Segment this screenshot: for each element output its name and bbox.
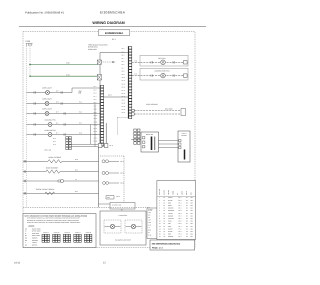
svg-text:VIOLET: VIOLET xyxy=(168,213,173,215)
svg-text:CONN J4: CONN J4 xyxy=(75,232,81,234)
resistor bake element xyxy=(23,166,124,174)
node broil fan enclosure xyxy=(132,55,188,66)
svg-text:A1-10: A1-10 xyxy=(122,77,126,79)
svg-text:BR: BR xyxy=(25,238,27,240)
svg-text:MUST BE USED. REPLACE ALL PANE: MUST BE USED. REPLACE ALL PANELS BEFORE … xyxy=(27,222,81,224)
svg-text:- GRAY WIRE: - GRAY WIRE xyxy=(31,235,40,237)
svg-text:A1-18: A1-18 xyxy=(122,103,126,105)
node P1 pin labels xyxy=(94,86,98,142)
connector header J3 xyxy=(63,232,71,242)
connector column A1 right xyxy=(122,46,132,119)
svg-text:EI30BM5CHBA: EI30BM5CHBA xyxy=(100,11,126,15)
svg-text:GN: GN xyxy=(191,210,193,212)
svg-text:P1-5: P1-5 xyxy=(94,99,97,101)
svg-text:GN: GN xyxy=(191,202,193,204)
node notes box xyxy=(23,214,96,248)
svg-text:A1-16: A1-16 xyxy=(122,96,126,98)
svg-text:18: 18 xyxy=(164,208,166,210)
svg-text:10 BL: 10 BL xyxy=(148,235,152,237)
svg-text:B8: B8 xyxy=(186,226,188,228)
svg-text:V: V xyxy=(25,242,26,244)
node page box xyxy=(150,240,195,250)
svg-text:P3-2: P3-2 xyxy=(179,221,182,223)
svg-text:C1: C1 xyxy=(186,228,188,230)
svg-text:8 GN: 8 GN xyxy=(148,230,151,232)
svg-text:A1-19: A1-19 xyxy=(122,106,126,108)
svg-text:GN: GN xyxy=(191,221,193,223)
svg-text:PAGE: 1 / 2: PAGE: 1 / 2 xyxy=(152,246,164,249)
svg-text:MOTOR: MOTOR xyxy=(181,135,186,137)
svg-text:PINK: PINK xyxy=(168,226,171,228)
svg-text:A1-3: A1-3 xyxy=(122,55,125,57)
motor M1 broil fan xyxy=(161,60,166,65)
wire element bus xyxy=(98,147,100,207)
wire header rule xyxy=(19,26,206,28)
connector block A2 two-column xyxy=(134,129,140,144)
wire section divider xyxy=(23,206,150,208)
svg-text:5 BR: 5 BR xyxy=(148,222,151,224)
node strip list xyxy=(147,208,158,239)
connector inline pairs xyxy=(24,91,35,194)
node latch motor block xyxy=(178,131,190,162)
svg-text:BRL FAN: BRL FAN xyxy=(159,57,167,60)
svg-text:CONN J1: CONN J1 xyxy=(43,232,49,234)
svg-text:P3-3: P3-3 xyxy=(179,223,182,225)
svg-text:A1-13: A1-13 xyxy=(122,87,126,89)
svg-text:BLACK: BLACK xyxy=(168,197,173,199)
svg-text:P1-4: P1-4 xyxy=(94,96,97,98)
svg-text:18: 18 xyxy=(164,221,166,223)
wire convection fan wire xyxy=(132,75,184,77)
svg-text:10: 10 xyxy=(159,221,161,223)
svg-text:P1-3: P1-3 xyxy=(179,202,182,204)
motor M3 cooling fan row xyxy=(27,119,101,127)
svg-text:GRAY: GRAY xyxy=(168,205,172,207)
svg-text:Publication No. 5995599548 #1: Publication No. 5995599548 #1 xyxy=(25,11,64,15)
wire dashed drop to lamp box xyxy=(123,156,125,207)
connector P7 grid xyxy=(53,137,71,150)
svg-text:P2-3: P2-3 xyxy=(179,213,182,215)
wire lock feed 2 xyxy=(72,146,105,148)
svg-text:A1-20: A1-20 xyxy=(122,109,126,111)
svg-text:B2: B2 xyxy=(186,210,188,212)
wire lock feed 1 xyxy=(72,144,99,146)
svg-text:BLACK: BLACK xyxy=(168,228,173,230)
svg-text:WHITE: WHITE xyxy=(168,200,173,202)
svg-text:R-11: R-11 xyxy=(75,170,78,172)
svg-text:OPERATING. CONNECT ALL GROUND: OPERATING. CONNECT ALL GROUND LEADS PER … xyxy=(27,220,80,222)
wire terminal block riser xyxy=(100,53,128,86)
svg-text:18: 18 xyxy=(164,231,166,233)
svg-text:P2-2: P2-2 xyxy=(179,210,182,212)
connector header J1 xyxy=(42,232,50,242)
node A1 pin labels xyxy=(122,48,126,114)
svg-text:A1-4: A1-4 xyxy=(122,58,125,60)
svg-text:P2-1: P2-1 xyxy=(179,208,182,210)
motor M2 convection fan xyxy=(161,73,166,78)
node diagram frame xyxy=(23,32,195,248)
svg-text:10/13: 10/13 xyxy=(14,262,21,265)
svg-text:A1-21: A1-21 xyxy=(122,112,126,114)
svg-text:EI30BM5CHBA: EI30BM5CHBA xyxy=(105,32,123,35)
svg-text:4 GY: 4 GY xyxy=(148,220,151,222)
svg-text:A2: A2 xyxy=(186,200,188,202)
svg-text:13: 13 xyxy=(159,228,161,230)
svg-text:GREEN: GREEN xyxy=(168,215,173,217)
svg-text:P1-17: P1-17 xyxy=(94,137,98,139)
wire broil fan wire xyxy=(132,61,184,63)
svg-text:A1-12: A1-12 xyxy=(122,83,126,85)
svg-text:R-2: R-2 xyxy=(56,122,58,124)
wire left dotted bus 2 xyxy=(29,46,31,76)
svg-text:E11: E11 xyxy=(66,62,69,65)
svg-text:18: 18 xyxy=(164,223,166,225)
svg-text:9 Y: 9 Y xyxy=(148,232,150,234)
svg-text:BK: BK xyxy=(25,228,27,230)
node terminal X1 xyxy=(97,60,101,64)
svg-text:12: 12 xyxy=(159,226,161,228)
node meat probe row xyxy=(23,179,124,184)
wire sensor run 1 xyxy=(135,110,182,112)
svg-text:LATCH: LATCH xyxy=(182,133,186,135)
svg-text:18: 18 xyxy=(164,200,166,202)
svg-text:6 OR: 6 OR xyxy=(148,225,151,227)
svg-text:A1: A1 xyxy=(186,197,188,199)
svg-text:- RED WIRE: - RED WIRE xyxy=(31,233,39,235)
connector lock plugs xyxy=(98,144,102,148)
svg-text:P1-2: P1-2 xyxy=(179,200,182,202)
svg-text:P4-3: P4-3 xyxy=(179,234,182,236)
node terminal X2 xyxy=(97,75,101,81)
svg-text:P1-18: P1-18 xyxy=(94,141,98,143)
svg-text:B7: B7 xyxy=(186,223,188,225)
svg-text:A1-8: A1-8 xyxy=(122,71,125,73)
svg-text:REF: REF xyxy=(191,192,193,195)
lamp L3 oven light row xyxy=(27,108,101,116)
svg-text:14: 14 xyxy=(159,231,161,233)
connector header J4 xyxy=(74,232,82,242)
svg-text:- VIOLET: - VIOLET xyxy=(31,242,37,244)
svg-text:A1-5: A1-5 xyxy=(108,94,112,97)
svg-text:P1-11: P1-11 xyxy=(94,118,98,120)
svg-text:CONN J3: CONN J3 xyxy=(64,232,70,234)
wire sensor run 2 xyxy=(135,113,182,115)
svg-text:18: 18 xyxy=(164,226,166,228)
svg-text:AT LATCH SW: AT LATCH SW xyxy=(112,204,122,206)
connector broil fan plug xyxy=(184,61,188,64)
svg-text:18: 18 xyxy=(164,234,166,236)
node convection fan enclosure xyxy=(132,68,188,80)
svg-text:P1-13: P1-13 xyxy=(94,125,98,127)
svg-text:B4: B4 xyxy=(186,215,188,217)
svg-text:B3: B3 xyxy=(186,213,188,215)
svg-text:WITH DOOR CLOSED, ALL SWITCHES: WITH DOOR CLOSED, ALL SWITCHES IN NORMAL… xyxy=(27,218,80,220)
node diagram title box xyxy=(98,30,129,36)
svg-text:18: 18 xyxy=(164,213,166,215)
svg-text:GN: GN xyxy=(25,244,27,246)
svg-text:E12: E12 xyxy=(66,73,69,76)
svg-text:GN: GN xyxy=(191,234,193,236)
svg-text:- WHITE WIRE: - WHITE WIRE xyxy=(31,231,41,233)
svg-text:18: 18 xyxy=(164,210,166,212)
svg-text:P2-4: P2-4 xyxy=(179,215,182,217)
svg-text:P1-1: P1-1 xyxy=(179,197,182,199)
wire relay to latch 2 xyxy=(159,143,179,145)
svg-text:BK-4: BK-4 xyxy=(75,191,78,193)
svg-text:Y-2: Y-2 xyxy=(75,179,77,181)
svg-text:A1-15: A1-15 xyxy=(122,93,126,95)
svg-text:SW1: SW1 xyxy=(107,197,110,199)
svg-text:GN: GN xyxy=(191,226,193,228)
svg-text:WIRING DIAGRAM: WIRING DIAGRAM xyxy=(92,21,124,25)
svg-text:C3: C3 xyxy=(186,234,188,236)
svg-text:18: 18 xyxy=(164,202,166,204)
lamp L1 oven light row xyxy=(27,86,101,94)
svg-text:A1-2: A1-2 xyxy=(122,51,125,53)
svg-text:W-5: W-5 xyxy=(56,90,59,92)
node row mid labels xyxy=(56,90,82,134)
svg-text:GN: GN xyxy=(191,208,193,210)
svg-text:11: 11 xyxy=(159,223,161,225)
svg-text:18: 18 xyxy=(164,236,166,238)
svg-text:- ORANGE: - ORANGE xyxy=(31,240,38,242)
wire terminal X1 stub xyxy=(102,61,117,63)
svg-text:WHITE: WHITE xyxy=(168,231,173,233)
wire relay to latch 3 xyxy=(159,147,179,149)
node relay board xyxy=(141,132,159,152)
svg-text:18: 18 xyxy=(164,197,166,199)
wire mid verticals xyxy=(90,125,92,145)
wire green line 2 xyxy=(29,73,97,77)
connector convection fan plug xyxy=(184,74,188,77)
svg-text:P1-4: P1-4 xyxy=(179,205,182,207)
svg-text:COLOR: COLOR xyxy=(168,190,170,195)
wire dashed cross link xyxy=(100,155,124,157)
svg-text:A1-11: A1-11 xyxy=(122,80,126,82)
svg-text:P4-2: P4-2 xyxy=(179,231,182,233)
svg-text:B5: B5 xyxy=(186,218,188,220)
svg-text:CONN J5: CONN J5 xyxy=(86,232,92,234)
svg-text:16: 16 xyxy=(159,236,161,238)
svg-text:OR: OR xyxy=(25,240,27,242)
svg-text:GREEN: GREEN xyxy=(168,236,173,238)
svg-text:BLUE: BLUE xyxy=(168,221,172,223)
svg-text:CONN: CONN xyxy=(182,191,184,195)
svg-text:A1-9: A1-9 xyxy=(122,74,125,76)
svg-text:B1: B1 xyxy=(186,208,188,210)
svg-text:R: R xyxy=(25,233,26,235)
node element row mid labels xyxy=(75,159,78,193)
wire relay to latch 1 xyxy=(159,140,179,142)
lamp L4 xyxy=(104,220,121,233)
svg-text:P1-10: P1-10 xyxy=(94,115,98,117)
svg-text:GN: GN xyxy=(191,215,193,217)
svg-text:GN: GN xyxy=(191,228,193,230)
svg-text:P4-4: P4-4 xyxy=(179,236,182,238)
svg-text:A1-1: A1-1 xyxy=(122,48,125,50)
svg-text:18: 18 xyxy=(164,228,166,230)
svg-text:W-7: W-7 xyxy=(56,111,59,113)
svg-text:C4: C4 xyxy=(186,236,188,238)
svg-text:GN: GN xyxy=(191,200,193,202)
svg-text:- BLACK WIRE: - BLACK WIRE xyxy=(31,228,41,230)
svg-text:RED: RED xyxy=(168,202,171,204)
svg-text:WIRE NO: WIRE NO xyxy=(159,188,161,195)
svg-text:7 V: 7 V xyxy=(148,227,150,229)
svg-text:GN: GN xyxy=(191,213,193,215)
svg-text:GY: GY xyxy=(25,235,27,237)
svg-text:P3-4: P3-4 xyxy=(179,226,182,228)
wire into relay board xyxy=(131,139,141,141)
svg-text:A1-14: A1-14 xyxy=(122,90,126,92)
svg-text:P1-3: P1-3 xyxy=(94,93,97,95)
svg-text:CONN J2: CONN J2 xyxy=(54,232,60,234)
svg-text:LATCH SW: LATCH SW xyxy=(44,149,52,151)
node latch switch note box xyxy=(110,203,135,210)
svg-text:P1-3: P1-3 xyxy=(79,101,82,103)
svg-text:BROWN: BROWN xyxy=(168,208,173,210)
svg-text:A3: A3 xyxy=(186,202,188,204)
node lamp assembly box xyxy=(100,208,146,245)
wire A1-5 link xyxy=(104,96,129,98)
motor M4 conv fan motor row xyxy=(27,129,101,137)
svg-text:ORANGE: ORANGE xyxy=(168,210,174,212)
svg-text:R-10: R-10 xyxy=(75,159,78,161)
svg-text:GN: GN xyxy=(191,218,193,220)
svg-text:P1-5: P1-5 xyxy=(79,111,82,113)
svg-text:RED: RED xyxy=(168,234,171,236)
svg-text:W-6: W-6 xyxy=(56,101,59,103)
lamp L2 oven light row xyxy=(27,97,101,105)
svg-text:YELLOW: YELLOW xyxy=(168,218,174,220)
svg-text:GN: GN xyxy=(191,197,193,199)
wire green line 1 xyxy=(29,62,97,66)
svg-text:P1-12: P1-12 xyxy=(94,121,98,123)
svg-text:P1-15: P1-15 xyxy=(94,131,98,133)
connector sensor pins xyxy=(132,109,135,111)
svg-text:18: 18 xyxy=(164,215,166,217)
svg-text:A1-17: A1-17 xyxy=(122,99,126,101)
node wire code table xyxy=(157,181,196,240)
svg-text:18: 18 xyxy=(164,218,166,220)
node thermal circuit breaker row xyxy=(23,188,135,209)
resistor broil element xyxy=(23,156,124,163)
svg-text:- BROWN: - BROWN xyxy=(31,238,37,240)
svg-text:CONVECTION FAN: CONVECTION FAN xyxy=(154,70,170,73)
wire dashed L drop xyxy=(117,118,128,136)
svg-text:A1-5: A1-5 xyxy=(122,61,125,63)
svg-text:P1-1: P1-1 xyxy=(79,90,82,92)
svg-text:P7-3: P7-3 xyxy=(53,144,56,146)
connector column P1 left xyxy=(94,85,104,147)
svg-text:P3-1: P3-1 xyxy=(179,218,182,220)
svg-text:P1-9: P1-9 xyxy=(79,132,82,134)
svg-text:P1-14: P1-14 xyxy=(94,128,98,130)
svg-text:- GREEN: - GREEN xyxy=(31,244,37,246)
svg-text:C2: C2 xyxy=(186,231,188,233)
svg-text:GN: GN xyxy=(191,236,193,238)
connector sensor plug xyxy=(181,109,186,116)
svg-text:15: 15 xyxy=(159,234,161,236)
svg-text:GN: GN xyxy=(191,231,193,233)
svg-text:R-4: R-4 xyxy=(56,132,58,134)
svg-text:P4-1: P4-1 xyxy=(179,228,182,230)
svg-text:P7-2: P7-2 xyxy=(53,141,56,143)
svg-text:P7-1: P7-1 xyxy=(53,138,56,140)
connector header J2 xyxy=(53,232,61,242)
svg-text:GAUGE: GAUGE xyxy=(164,190,166,195)
svg-text:NOTE: NOTE xyxy=(186,191,188,195)
svg-text:B6: B6 xyxy=(186,221,188,223)
svg-text:P1-7: P1-7 xyxy=(79,122,82,124)
lamp L5 xyxy=(125,220,142,233)
svg-text:TAN: TAN xyxy=(168,223,171,225)
svg-text:GN: GN xyxy=(191,223,193,225)
svg-text:3 R: 3 R xyxy=(148,217,150,219)
svg-text:800-5995599548 (AB2205XXX): 800-5995599548 (AB2205XXX) xyxy=(152,242,181,245)
wire left dotted bus 1 xyxy=(26,46,28,207)
svg-text:P1-2: P1-2 xyxy=(94,89,97,91)
wire lock vertical pair xyxy=(105,123,107,144)
svg-text:1 BK: 1 BK xyxy=(148,212,151,214)
svg-text:18: 18 xyxy=(164,205,166,207)
svg-text:GN: GN xyxy=(191,205,193,207)
connector header J5 xyxy=(84,232,92,242)
svg-text:A4: A4 xyxy=(186,205,188,207)
svg-text:A1-6: A1-6 xyxy=(122,64,125,66)
svg-text:A1-7: A1-7 xyxy=(122,67,125,69)
